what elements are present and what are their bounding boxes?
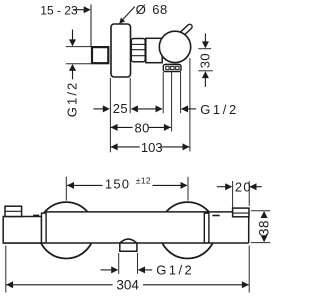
witness line nipple bottom: [66, 63, 92, 65]
svg-text:304: 304: [116, 277, 139, 292]
wall reference line: [90, 5, 92, 47]
witness line handle front: [189, 58, 191, 152]
witness line bar right end upper: [248, 181, 250, 206]
down arrow nipple top: [69, 30, 76, 47]
handle lever side view: [179, 23, 193, 37]
witness line bar right end lower: [248, 246, 250, 293]
right collar: [204, 213, 209, 243]
outlet nut side view: [163, 64, 181, 71]
left wall escutcheon circle: [38, 202, 94, 258]
dimension 150 +-12 row: [67, 176, 188, 192]
svg-text:38: 38: [256, 220, 271, 236]
witness line right union centre: [187, 177, 189, 201]
witness line right tab left: [232, 181, 234, 208]
witness line escutcheon front face: [109, 78, 111, 153]
dimension 103 row: [111, 140, 190, 155]
dimension 25 row: [93, 101, 162, 116]
right union escutcheon front: [248, 217, 250, 243]
svg-text:150: 150: [105, 177, 130, 192]
svg-text:G1/2: G1/2: [64, 81, 79, 118]
mixer bar body: [46, 212, 249, 243]
dimension 80 row: [111, 121, 171, 136]
left union pipe tab: [5, 206, 22, 216]
witness line nipple top: [66, 46, 92, 48]
dimension 20 row: [217, 179, 262, 194]
shower outlet block: [119, 243, 138, 251]
connection nipple square: [92, 47, 108, 63]
right wall escutcheon circle: [159, 202, 215, 258]
witness line outlet right: [137, 253, 139, 274]
escutcheon side view: [111, 24, 131, 77]
svg-text:20: 20: [235, 179, 252, 194]
witness line outlet nut left: [162, 72, 164, 113]
handle knob side view: [159, 31, 190, 62]
witness line escutcheon back face: [129, 78, 131, 113]
up arrow nipple bottom: [69, 64, 76, 79]
dimension 30 column: [198, 33, 213, 87]
svg-text:30: 30: [198, 53, 213, 68]
svg-text:15 - 23: 15 - 23: [40, 4, 78, 18]
witness line outlet left: [118, 253, 120, 274]
leader line 15-23: [73, 9, 85, 11]
svg-text:G1/2: G1/2: [156, 263, 194, 278]
svg-text:25: 25: [113, 101, 128, 116]
right tick dash: [212, 215, 219, 217]
witness line outlet nut right: [180, 72, 182, 113]
svg-text:±12: ±12: [136, 176, 151, 186]
dimension 304 row: [6, 277, 249, 292]
arrowhead 15-23: [84, 6, 91, 13]
leader line Ø 68: [122, 7, 135, 22]
ribbed union nut side view: [131, 39, 145, 62]
arrowhead Ø 68: [117, 18, 125, 26]
witness line bar left end lower: [5, 246, 7, 293]
left union escutcheon front: [3, 217, 41, 244]
svg-text:68: 68: [152, 2, 168, 17]
witness line outlet axis: [171, 72, 173, 132]
left tick dash: [33, 214, 39, 216]
svg-text:80: 80: [135, 121, 150, 136]
svg-text:G1/2: G1/2: [200, 102, 239, 117]
right union pipe tab: [233, 208, 249, 217]
svg-text:Ø: Ø: [136, 2, 146, 17]
svg-text:103: 103: [141, 140, 163, 155]
dimension G1/2 outlet front: [101, 263, 194, 278]
shower outlet dome: [120, 239, 137, 243]
left collar: [42, 213, 47, 243]
dimension G1/2 outlet row: [181, 102, 239, 117]
witness line left union centre: [65, 177, 67, 201]
valve body side view: [146, 38, 162, 62]
dimension 38 column: [251, 211, 271, 243]
